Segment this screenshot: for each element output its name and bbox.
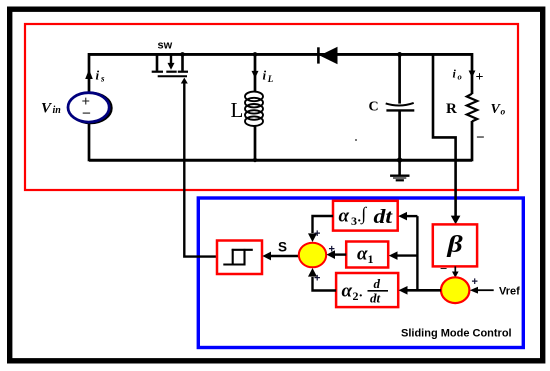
gain block a3 integral xyxy=(333,201,398,231)
svg-text:β: β xyxy=(446,232,463,258)
summing junction 1 xyxy=(299,243,326,268)
svg-text:L: L xyxy=(267,74,274,84)
svg-text:R: R xyxy=(446,101,457,117)
control boundary box (blue) xyxy=(198,198,523,348)
voltage source Vin xyxy=(68,93,112,123)
svg-text:in: in xyxy=(53,105,62,116)
junction: inductor on bottom rail xyxy=(253,158,257,162)
diode D xyxy=(318,47,337,64)
svg-text:Vref: Vref xyxy=(499,286,520,298)
wire: output sense tap xyxy=(433,53,456,217)
label i_o xyxy=(453,67,462,82)
summing junction 2 xyxy=(441,277,469,303)
wire: bus branch to a3 xyxy=(407,215,417,217)
arrow into a3 xyxy=(398,212,407,221)
wire: capacitor branch lower xyxy=(398,112,401,161)
label i_s xyxy=(96,68,106,84)
arrow Vref into summing junction 2 xyxy=(470,287,478,294)
junction: right MOSFET stub on top rail xyxy=(180,52,185,57)
svg-text:dt: dt xyxy=(370,291,381,306)
switch SW (MOSFET) xyxy=(152,53,188,76)
current arrow i_L xyxy=(252,71,259,79)
wire: beta to summing junction 2 xyxy=(454,266,456,272)
svg-text:s: s xyxy=(100,74,105,84)
wire: a1 output to summing junction xyxy=(334,253,346,255)
wire: top rail xyxy=(89,53,472,56)
wire: capacitor branch upper xyxy=(398,54,401,103)
wire: bus branch to a1 xyxy=(398,254,418,256)
gain block a1 xyxy=(346,242,388,268)
arrow into a1 xyxy=(389,251,398,260)
svg-text:Sliding Mode Control: Sliding Mode Control xyxy=(401,328,512,340)
svg-text:3: 3 xyxy=(351,214,357,228)
wire: gate feedback from hysteresis to switch xyxy=(184,83,217,257)
svg-text:−: − xyxy=(82,105,91,122)
arrow into a2 xyxy=(399,286,408,295)
svg-text:2: 2 xyxy=(353,289,359,303)
svg-text:S: S xyxy=(278,240,287,255)
arrow a3 into summing junction xyxy=(308,233,317,242)
label i_L xyxy=(263,68,274,84)
feedback gain block beta xyxy=(433,224,477,266)
wire: inductor branch lower xyxy=(254,126,257,160)
svg-text:sw: sw xyxy=(158,39,173,51)
arrow into hysteresis xyxy=(262,252,271,261)
svg-text:i: i xyxy=(96,68,100,83)
junction: capacitor tap on top rail xyxy=(397,52,402,57)
arrow into beta block xyxy=(451,216,461,225)
svg-text:i: i xyxy=(263,68,267,83)
svg-text:α: α xyxy=(342,281,353,302)
svg-text:1: 1 xyxy=(368,252,374,266)
junction: inductor tap on top rail xyxy=(253,52,258,57)
gain block a2 derivative xyxy=(336,273,398,307)
wire: inductor branch upper xyxy=(254,54,257,92)
svg-text:+: + xyxy=(314,228,320,240)
current arrow i_o xyxy=(469,71,476,78)
svg-text:α: α xyxy=(357,244,368,265)
wire: Vin bottom to bottom rail xyxy=(88,122,91,161)
current arrow i_s xyxy=(85,69,93,79)
junction: capacitor/ground on bottom rail xyxy=(397,157,402,162)
wire: summing junction 2 output bus xyxy=(408,289,441,292)
svg-text:dt: dt xyxy=(374,206,394,228)
wire: resistor branch upper xyxy=(471,53,474,94)
power stage boundary box (red) xyxy=(25,24,518,190)
arrow beta into summing junction 2 xyxy=(452,272,459,278)
label Vin xyxy=(41,101,61,117)
svg-text:C: C xyxy=(369,100,379,115)
svg-text:+: + xyxy=(314,273,320,285)
svg-text:α: α xyxy=(339,206,350,227)
inductor L coil xyxy=(245,92,263,126)
wire: vertical distribution bus xyxy=(416,216,418,290)
wire: summing junction to hysteresis xyxy=(271,255,299,257)
capacitor C plates xyxy=(386,103,415,111)
wire: a3 output to summing junction xyxy=(313,216,334,233)
svg-text:o: o xyxy=(458,72,462,82)
wire: a2 output to summing junction xyxy=(313,277,337,291)
label Vo xyxy=(491,102,506,118)
svg-text:o: o xyxy=(501,108,506,118)
svg-text:−: − xyxy=(476,130,485,146)
svg-text:−: − xyxy=(440,261,447,276)
svg-text:+: + xyxy=(472,276,478,288)
arrow into gate xyxy=(181,78,188,84)
wire: Vref input xyxy=(478,289,494,291)
svg-text:d: d xyxy=(374,276,381,291)
wire: left drop from top rail to Vin xyxy=(88,53,91,93)
resistor R zigzag xyxy=(467,94,477,122)
arrow a2 into summing junction xyxy=(308,268,317,277)
wire: ground stub xyxy=(398,160,401,175)
ground symbol xyxy=(390,176,409,181)
svg-text:.: . xyxy=(359,286,363,301)
svg-text:+: + xyxy=(476,70,484,85)
wire: resistor branch lower xyxy=(471,121,474,161)
stray dot xyxy=(355,139,357,141)
svg-text:L: L xyxy=(231,98,244,122)
svg-text:+: + xyxy=(329,244,335,256)
hysteresis comparator U1 xyxy=(217,241,262,275)
arrow a1 into summing junction xyxy=(327,250,336,259)
wire: bottom rail xyxy=(89,159,472,162)
